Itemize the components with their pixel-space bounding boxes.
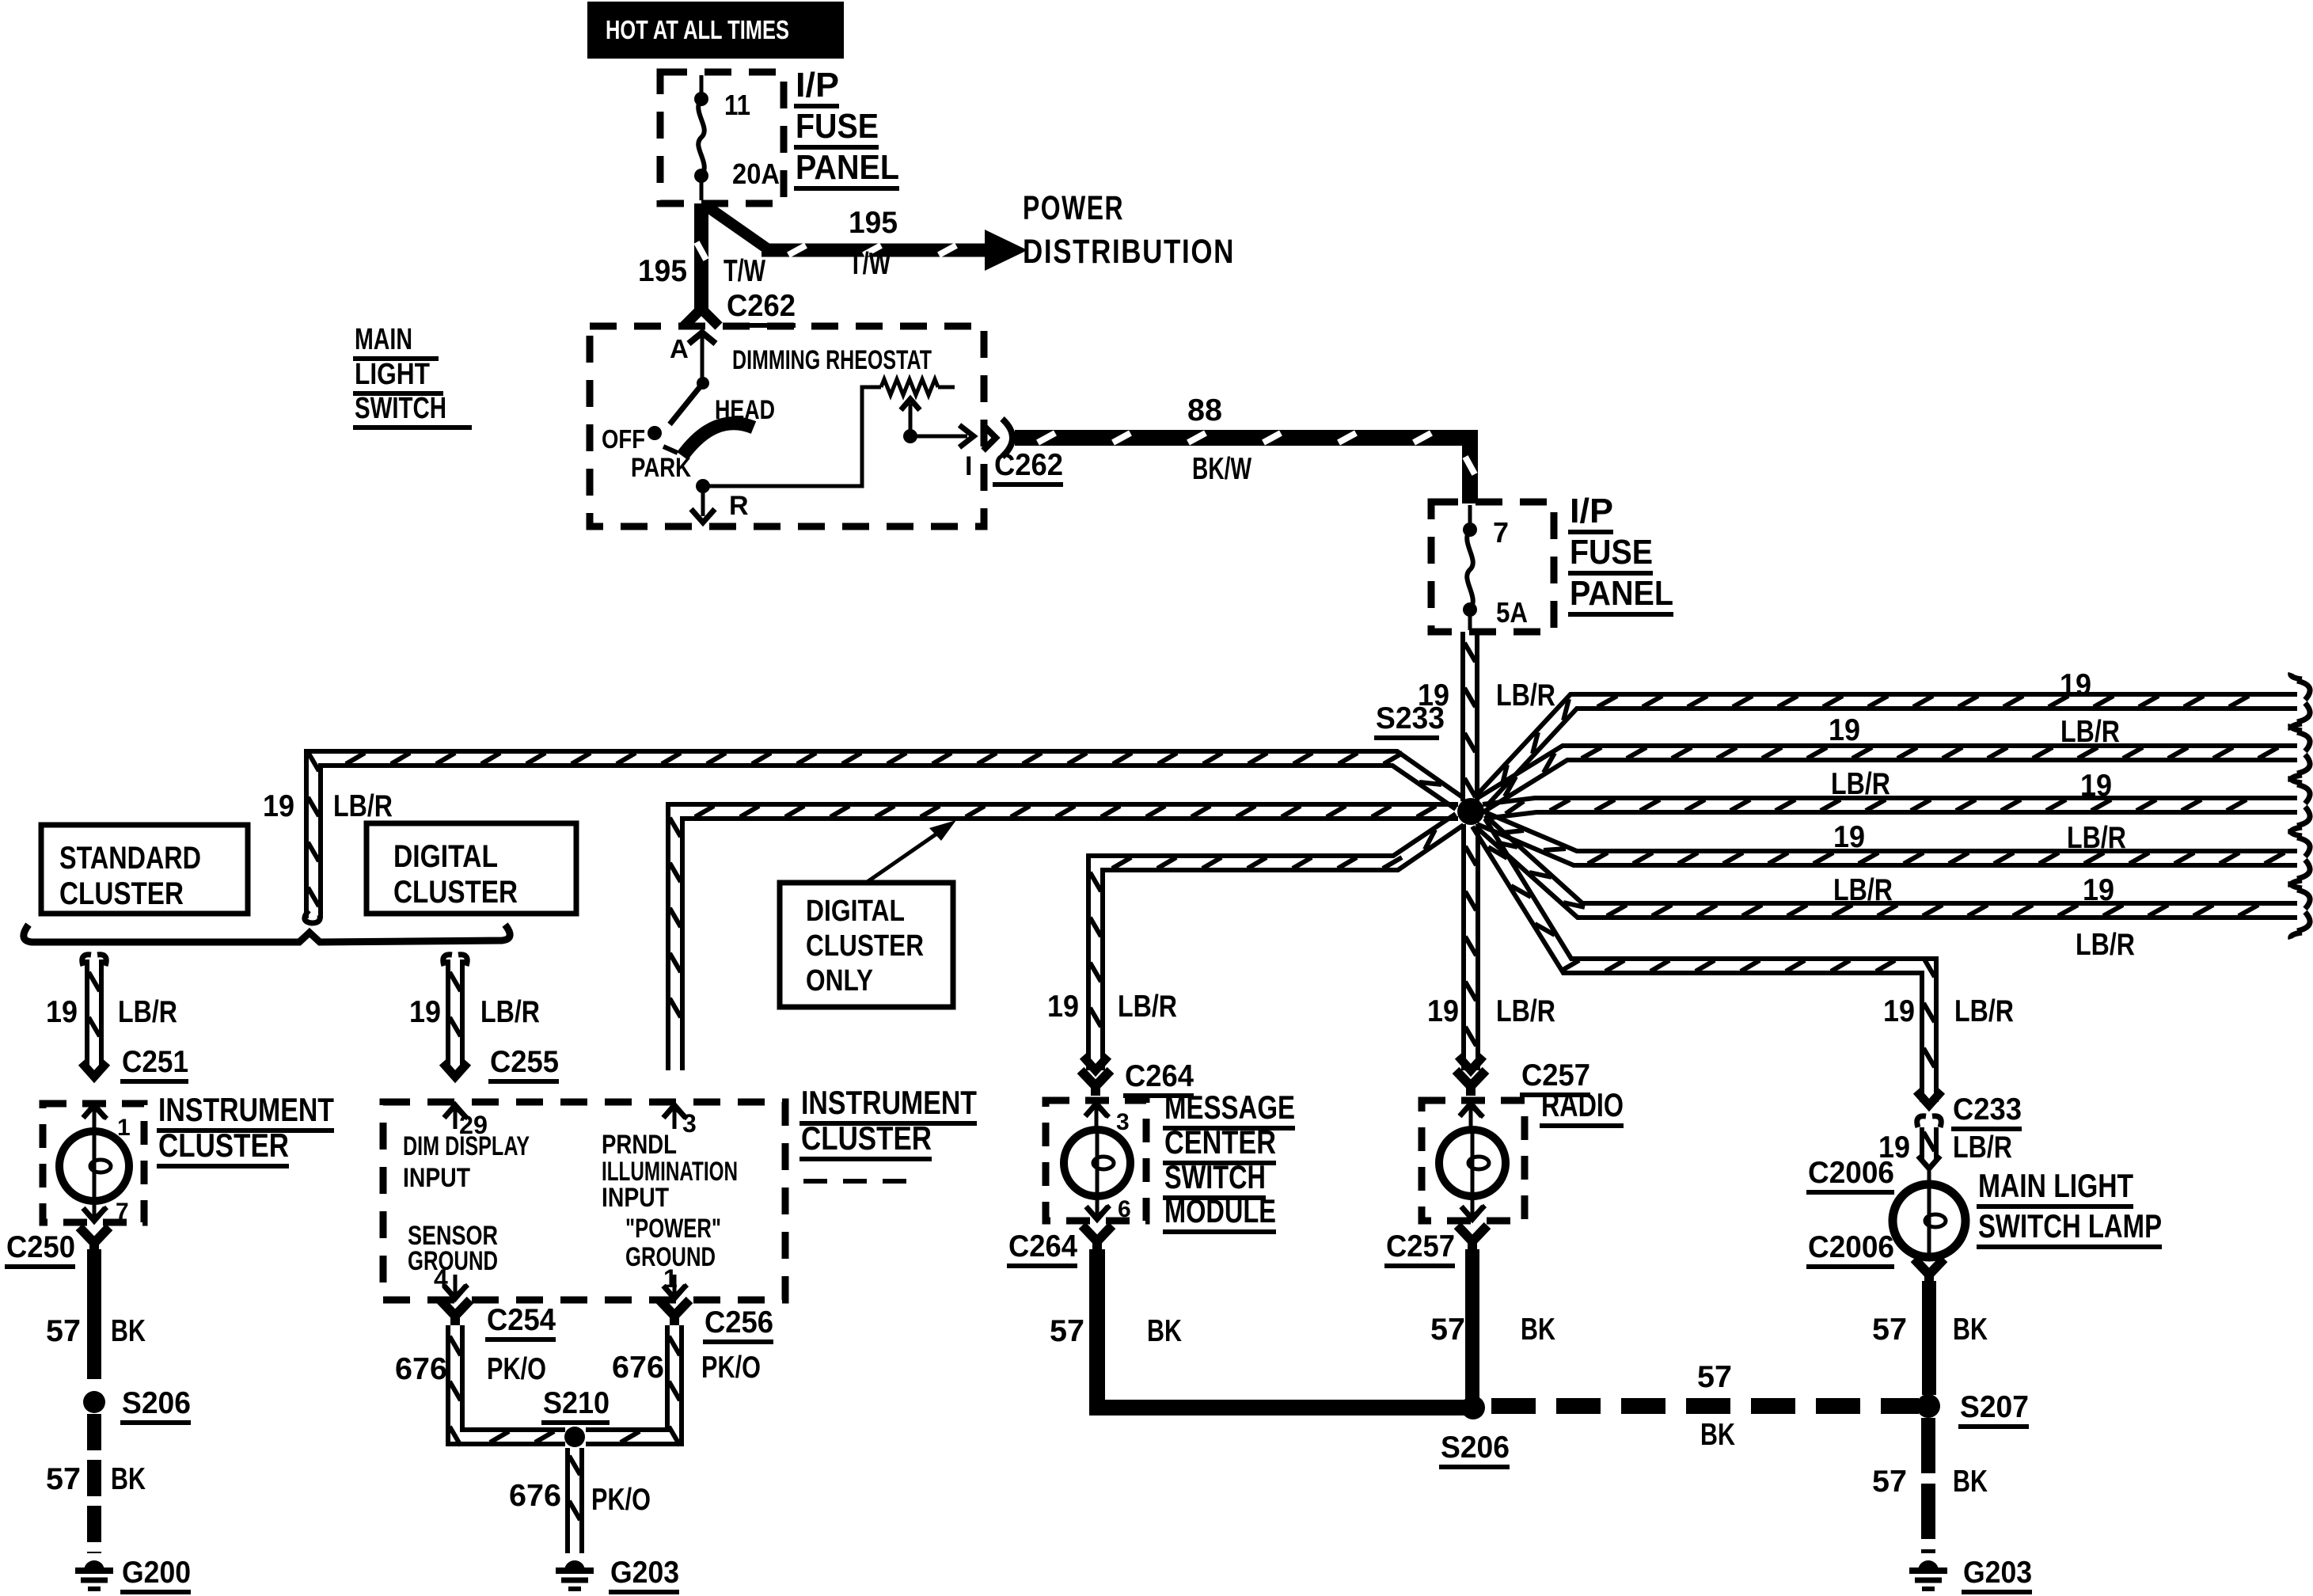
svg-text:LB/R: LB/R	[1496, 678, 1555, 712]
svg-text:C250: C250	[6, 1230, 75, 1264]
svg-text:19: 19	[1833, 820, 1865, 854]
svg-text:PANEL: PANEL	[796, 148, 899, 187]
svg-text:DIMMING RHEOSTAT: DIMMING RHEOSTAT	[732, 345, 932, 375]
svg-text:57: 57	[46, 1462, 81, 1496]
svg-text:PRNDL: PRNDL	[602, 1130, 677, 1160]
svg-text:C255: C255	[490, 1045, 559, 1079]
svg-text:CLUSTER: CLUSTER	[59, 876, 184, 911]
svg-text:I: I	[965, 451, 972, 481]
svg-text:195: 195	[638, 254, 687, 288]
svg-text:19: 19	[2060, 668, 2091, 702]
svg-text:GROUND: GROUND	[408, 1246, 498, 1276]
svg-text:C256: C256	[705, 1305, 773, 1339]
svg-text:INSTRUMENT: INSTRUMENT	[801, 1084, 977, 1121]
svg-text:CLUSTER: CLUSTER	[158, 1127, 289, 1164]
svg-text:G200: G200	[122, 1556, 191, 1590]
svg-text:INPUT: INPUT	[403, 1163, 470, 1193]
svg-text:BK/W: BK/W	[1192, 452, 1251, 486]
svg-text:C254: C254	[487, 1303, 556, 1337]
svg-text:88: 88	[1187, 393, 1222, 427]
svg-text:CLUSTER: CLUSTER	[801, 1119, 932, 1157]
svg-text:C233: C233	[1953, 1092, 2022, 1127]
svg-text:LB/R: LB/R	[118, 995, 177, 1029]
svg-text:3: 3	[682, 1109, 697, 1138]
svg-text:T/W: T/W	[724, 254, 765, 288]
svg-text:MAIN: MAIN	[355, 323, 412, 356]
svg-text:BK: BK	[111, 1314, 146, 1348]
svg-text:SWITCH LAMP: SWITCH LAMP	[1978, 1207, 2162, 1244]
svg-text:C262: C262	[994, 448, 1063, 482]
svg-text:676: 676	[509, 1479, 561, 1513]
svg-text:R: R	[729, 491, 749, 521]
svg-text:PANEL: PANEL	[1570, 574, 1673, 613]
svg-text:LB/R: LB/R	[1118, 990, 1177, 1024]
svg-text:BK: BK	[111, 1462, 146, 1496]
svg-text:19: 19	[1883, 994, 1915, 1028]
svg-text:PARK: PARK	[631, 453, 691, 483]
svg-text:HOT AT ALL TIMES: HOT AT ALL TIMES	[606, 15, 789, 44]
svg-text:57: 57	[1050, 1314, 1084, 1348]
svg-text:INPUT: INPUT	[602, 1183, 669, 1213]
svg-text:C251: C251	[122, 1045, 188, 1079]
svg-text:LB/R: LB/R	[480, 995, 540, 1029]
svg-text:LB/R: LB/R	[1496, 994, 1555, 1028]
svg-text:LB/R: LB/R	[333, 789, 393, 823]
svg-text:LB/R: LB/R	[1953, 1130, 2012, 1165]
svg-text:LB/R: LB/R	[1833, 873, 1893, 907]
svg-text:FUSE: FUSE	[1570, 533, 1653, 572]
svg-text:HEAD: HEAD	[715, 395, 775, 425]
svg-text:57: 57	[46, 1314, 81, 1348]
svg-text:LB/R: LB/R	[1831, 767, 1890, 801]
svg-text:LB/R: LB/R	[2067, 821, 2126, 855]
svg-text:MODULE: MODULE	[1164, 1192, 1276, 1229]
svg-text:SWITCH: SWITCH	[355, 392, 446, 425]
svg-text:ONLY: ONLY	[806, 964, 873, 997]
svg-text:MESSAGE: MESSAGE	[1164, 1089, 1295, 1126]
svg-text:POWER: POWER	[1023, 189, 1124, 227]
svg-text:5A: 5A	[1496, 596, 1528, 629]
svg-text:LB/R: LB/R	[1954, 994, 2014, 1028]
svg-text:S206: S206	[122, 1386, 191, 1420]
svg-text:C262: C262	[727, 289, 796, 323]
svg-text:57: 57	[1430, 1313, 1465, 1347]
svg-text:C264: C264	[1008, 1229, 1077, 1263]
svg-text:DIGITAL: DIGITAL	[393, 839, 498, 874]
svg-text:676: 676	[612, 1351, 664, 1385]
svg-text:7: 7	[1493, 516, 1509, 549]
svg-text:FUSE: FUSE	[796, 107, 879, 146]
svg-text:19: 19	[46, 995, 78, 1029]
svg-text:DIGITAL: DIGITAL	[806, 895, 905, 928]
svg-text:6: 6	[1118, 1196, 1131, 1222]
svg-text:DISTRIBUTION: DISTRIBUTION	[1023, 233, 1235, 271]
svg-text:INSTRUMENT: INSTRUMENT	[158, 1091, 334, 1128]
svg-text:20A: 20A	[732, 158, 780, 190]
svg-text:PK/O: PK/O	[591, 1483, 651, 1517]
svg-text:3: 3	[1116, 1109, 1130, 1135]
svg-text:BK: BK	[1700, 1418, 1735, 1452]
svg-text:19: 19	[2080, 769, 2112, 803]
svg-text:19: 19	[409, 995, 441, 1029]
svg-text:RADIO: RADIO	[1541, 1086, 1624, 1123]
svg-text:19: 19	[2083, 873, 2114, 907]
svg-text:19: 19	[1829, 713, 1860, 747]
svg-text:PK/O: PK/O	[701, 1351, 761, 1385]
svg-text:LIGHT: LIGHT	[355, 358, 430, 391]
svg-text:195: 195	[849, 206, 898, 240]
svg-text:BK: BK	[1953, 1465, 1988, 1499]
svg-text:7: 7	[116, 1199, 129, 1225]
svg-text:C2006: C2006	[1808, 1156, 1894, 1190]
svg-text:A: A	[670, 334, 689, 363]
svg-text:S210: S210	[543, 1386, 610, 1420]
svg-text:LB/R: LB/R	[2060, 715, 2120, 749]
svg-text:CLUSTER: CLUSTER	[393, 875, 518, 910]
svg-text:S207: S207	[1960, 1390, 2029, 1424]
svg-text:"POWER": "POWER"	[625, 1214, 721, 1244]
svg-text:676: 676	[395, 1352, 447, 1386]
svg-text:DIM DISPLAY: DIM DISPLAY	[403, 1131, 530, 1161]
svg-text:57: 57	[1872, 1465, 1907, 1499]
svg-text:S233: S233	[1376, 701, 1445, 735]
svg-text:T/W: T/W	[849, 247, 891, 281]
svg-text:SWITCH: SWITCH	[1164, 1158, 1266, 1195]
svg-text:19: 19	[263, 789, 294, 823]
svg-text:57: 57	[1872, 1313, 1907, 1347]
svg-text:19: 19	[1047, 990, 1079, 1024]
svg-text:I/P: I/P	[796, 66, 839, 104]
svg-text:C257: C257	[1386, 1229, 1455, 1263]
svg-text:57: 57	[1697, 1360, 1732, 1394]
svg-text:G203: G203	[610, 1556, 679, 1590]
svg-text:STANDARD: STANDARD	[59, 841, 201, 876]
svg-text:11: 11	[724, 89, 750, 121]
svg-text:BK: BK	[1953, 1313, 1988, 1347]
svg-text:MAIN LIGHT: MAIN LIGHT	[1978, 1167, 2133, 1204]
svg-text:OFF: OFF	[602, 424, 645, 454]
svg-text:LB/R: LB/R	[2076, 928, 2135, 962]
svg-text:PK/O: PK/O	[487, 1352, 546, 1386]
svg-text:C2006: C2006	[1808, 1230, 1894, 1264]
svg-text:CLUSTER: CLUSTER	[806, 929, 924, 963]
svg-text:BK: BK	[1147, 1314, 1182, 1348]
svg-text:CENTER: CENTER	[1164, 1123, 1276, 1161]
svg-text:19: 19	[1427, 994, 1459, 1028]
svg-text:S206: S206	[1441, 1431, 1510, 1465]
svg-text:G203: G203	[1963, 1556, 2032, 1590]
svg-text:I/P: I/P	[1570, 492, 1613, 530]
svg-text:BK: BK	[1521, 1313, 1555, 1347]
